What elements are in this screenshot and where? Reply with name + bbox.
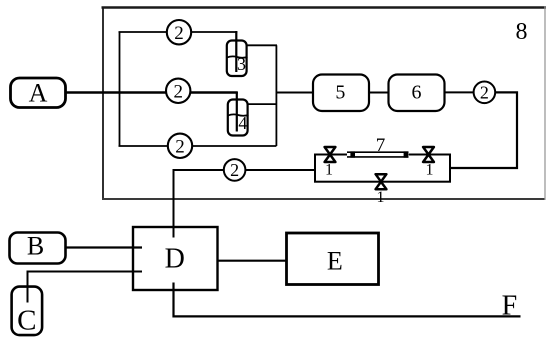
component B box (10, 233, 66, 264)
svg-text:E: E (327, 247, 343, 276)
vessel 4 body (228, 100, 248, 136)
svg-text:2: 2 (174, 23, 184, 44)
reaction tube 7 walls (347, 152, 409, 157)
vessel 3 liquid level (227, 56, 248, 57)
svg-text:2: 2 (480, 83, 489, 103)
wire D bottom outlet to F (174, 283, 521, 317)
svg-text:8: 8 (516, 19, 528, 45)
svg-text:3: 3 (237, 54, 246, 74)
unit 6 box (389, 75, 445, 112)
enclosure box 8 top edge (102, 6, 547, 9)
wire bus to unit 5 (276, 92, 313, 94)
wire C probe and line to D (28, 272, 143, 303)
flow controller 2 (top branch) (167, 20, 191, 44)
svg-text:7: 7 (376, 135, 386, 156)
flow controller 2 (outlet) (474, 82, 496, 104)
svg-text:2: 2 (230, 160, 239, 180)
svg-text:2: 2 (175, 136, 185, 157)
enclosure box 8 left edge (102, 7, 104, 201)
wire collector bus (275, 45, 277, 146)
svg-text:D: D (165, 243, 185, 274)
svg-text:B: B (27, 232, 44, 261)
svg-text:F: F (502, 290, 518, 321)
enclosure box 8 right edge (544, 7, 546, 201)
flow controller 2 (bottom branch) (168, 134, 192, 158)
svg-text:2: 2 (173, 81, 183, 102)
component A box (11, 78, 66, 108)
reaction tube 7 right end plug (404, 151, 409, 157)
enclosure box 8 bottom edge (102, 198, 546, 200)
component C box (12, 287, 42, 336)
reaction tube 7 white underlay (347, 151, 409, 157)
component E box (287, 233, 379, 285)
valve 1 (right) (423, 147, 434, 162)
wire controller to valve block right side (450, 92, 517, 168)
svg-text:1: 1 (426, 162, 434, 179)
flow controller 2 (reactor feed) (224, 159, 246, 181)
vessel 4 liquid level (228, 114, 249, 115)
wire unit 6 to controller (445, 91, 475, 93)
svg-text:1: 1 (325, 162, 333, 179)
component D box (133, 227, 218, 290)
wire A to manifold (middle branch main line) (66, 91, 238, 94)
valve 1 (bottom) (376, 174, 387, 189)
svg-text:1: 1 (377, 189, 385, 206)
svg-text:5: 5 (335, 82, 345, 104)
wire left feed to valve block (245, 169, 316, 171)
svg-text:4: 4 (238, 113, 247, 133)
wire bottom branch (119, 145, 277, 147)
flow controller 2 (middle branch) (166, 79, 190, 103)
valve block rectangle (315, 155, 450, 182)
unit 5 box (313, 75, 369, 112)
wire tube into vessel 3 (235, 31, 237, 72)
wire controller to D riser (174, 170, 225, 238)
svg-text:C: C (17, 305, 36, 337)
wire branch vertical manifold (119, 32, 121, 146)
reaction tube 7 left end plug (350, 151, 355, 157)
wire top branch (119, 31, 238, 33)
wire vessel 4 outlet (248, 103, 278, 105)
wire tube into vessel 4 (236, 92, 238, 132)
wire B to D (66, 246, 143, 248)
valve 1 (left) (325, 147, 336, 162)
svg-text:A: A (29, 79, 48, 108)
svg-text:6: 6 (412, 82, 422, 104)
wire unit 5 to unit 6 (369, 92, 389, 94)
vessel 3 body (227, 41, 247, 77)
wire vessel 3 outlet (247, 44, 278, 46)
wire D to E (218, 260, 287, 262)
